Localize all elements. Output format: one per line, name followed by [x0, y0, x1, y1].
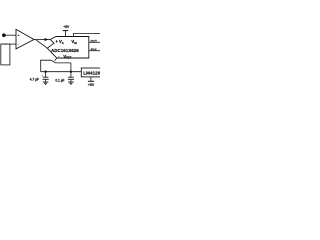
wire VREF rail	[41, 71, 82, 73]
svg-text:ADC161S626: ADC161S626	[51, 48, 79, 53]
wire op-amp output	[34, 39, 50, 41]
svg-text:0.1 µF: 0.1 µF	[55, 78, 64, 82]
wire inverting input	[1, 43, 16, 45]
junction drop	[70, 71, 72, 73]
resistor feedback loop rectangle	[1, 44, 10, 65]
svg-text:VREF: VREF	[63, 54, 72, 60]
pin stub SCLK	[89, 50, 100, 52]
svg-text:+5V: +5V	[88, 83, 95, 87]
svg-text:4.7 µF: 4.7 µF	[30, 78, 39, 82]
wire VREF drop right	[70, 63, 72, 72]
pin stub DOUT	[89, 41, 100, 43]
junction C1	[44, 71, 46, 73]
svg-text:-: -	[18, 42, 20, 46]
capacitor C1 4.7uF	[45, 72, 47, 78]
svg-text:+5V: +5V	[63, 25, 70, 29]
svg-text:+ VA: + VA	[55, 39, 63, 45]
+5V supply bottom	[90, 77, 92, 81]
svg-text:LM4120-2: LM4120-2	[83, 70, 100, 75]
svg-text:+: +	[18, 34, 20, 38]
wire VREF horizontal	[41, 60, 71, 71]
voltage reference U3 LM4120	[81, 68, 102, 77]
ADC U2 ADC161S626 body	[47, 37, 89, 59]
svg-text:SCLK: SCLK	[91, 49, 97, 51]
wire VIO supply to right edge	[74, 33, 101, 36]
node VIN input dot	[2, 33, 6, 37]
op-amp U1	[16, 29, 34, 49]
arrowhead into ADC	[45, 38, 49, 41]
ground under C2	[68, 81, 74, 83]
wire noninverting input	[3, 34, 16, 36]
svg-text:VIO: VIO	[71, 39, 77, 45]
wire branch to IN- notch	[36, 40, 47, 48]
svg-text:DOUT: DOUT	[91, 41, 98, 43]
capacitor C2 0.1uF	[70, 72, 72, 78]
wire corner to VREF net	[55, 58, 57, 61]
ground under C1	[43, 81, 49, 83]
